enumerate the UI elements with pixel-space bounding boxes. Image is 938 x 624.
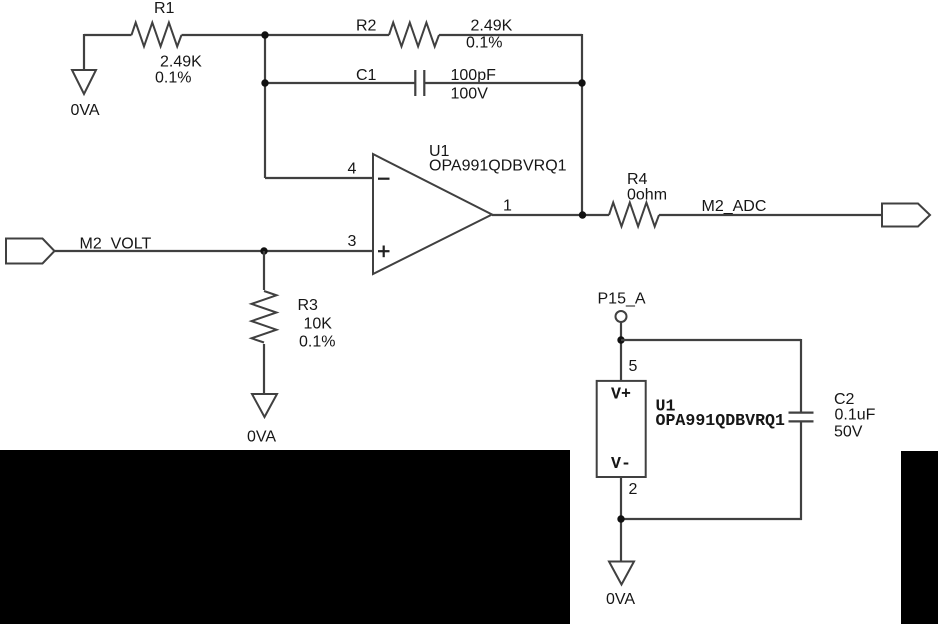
wire R1 to ground drop [83,34,85,70]
label R2 designator [356,18,377,35]
op-amp U1 [373,154,492,274]
power box U1 V+/V- [597,381,646,477]
wire M2_VOLT to pin3 [55,250,374,252]
label C1 voltage 100V [451,86,489,103]
svg-text:R2: R2 [356,18,377,35]
wire R2 to right corner [439,34,582,36]
svg-text:0VA: 0VA [606,591,635,608]
wire bottom branch [621,518,802,520]
pin number 1 [503,198,512,215]
svg-text:2.49K: 2.49K [471,18,513,35]
capacitor C2 [789,413,814,422]
wire C2 top lead [800,339,802,413]
label U1 designator (power box) [656,397,676,416]
ground 0VA (bottom) [606,562,635,609]
svg-text:2.49K: 2.49K [160,54,202,71]
label R1 designator [154,0,175,17]
wire top branch to C2 [621,339,801,341]
redaction block right [901,451,938,624]
svg-text:0ohm: 0ohm [627,187,667,204]
svg-text:1: 1 [503,198,512,215]
wire R1 to R2 [182,34,390,36]
wire P15_A to box pin5 [620,322,622,381]
label C1 designator [356,67,377,84]
svg-text:R3: R3 [298,297,319,314]
resistor R1 [132,23,182,47]
label C1 value 100pF [451,67,497,84]
svg-text:100V: 100V [451,86,489,103]
svg-text:0.1%: 0.1% [299,334,335,351]
net label M2_ADC [702,198,767,215]
svg-text:R4: R4 [627,171,648,188]
capacitor C1 [415,70,424,96]
wire C2 bottom lead [800,421,802,520]
svg-text:OPA991QDBVRQ1: OPA991QDBVRQ1 [656,411,785,430]
junction node R1/R2 [261,31,268,38]
wire op-amp pin4 lead [265,177,373,179]
resistor R4 [609,203,659,227]
redaction block left [0,450,570,624]
svg-text:P15_A: P15_A [598,291,646,308]
pin number 4 [348,161,357,178]
label R3 tolerance 0.1% [299,334,335,351]
net label P15_A [598,291,646,308]
svg-text:C2: C2 [834,391,855,408]
svg-text:R1: R1 [154,0,175,17]
label R4 value 0ohm [627,187,667,204]
svg-text:OPA991QDBVRQ1: OPA991QDBVRQ1 [429,158,567,175]
label U1 part OPA991QDBVRQ1 [429,158,567,175]
wire R4 to output port [659,214,882,216]
svg-text:0VA: 0VA [247,429,276,446]
label R2 tolerance 0.1% [466,35,502,52]
pin number 3 [348,233,357,250]
svg-text:50V: 50V [834,424,863,441]
label R3 value 10K [304,316,333,333]
label R1 value 2.49K [160,54,202,71]
svg-text:0.1%: 0.1% [466,35,502,52]
svg-text:100pF: 100pF [451,67,497,84]
ground 0VA (R3) [247,394,277,446]
wire box pin2 to ground [620,477,622,562]
resistor R3 [252,291,277,343]
svg-text:0.1uF: 0.1uF [835,407,876,424]
label U1 designator [429,143,450,160]
label R4 designator [627,171,648,188]
wire op-amp output [492,214,609,216]
junction P15 top [617,336,624,343]
ground 0VA (left) [71,70,100,119]
label C2 designator [834,391,855,408]
svg-text:4: 4 [348,161,357,178]
wire C1 left lead [265,82,415,84]
label C2 value 0.1uF [835,407,876,424]
wire C1 right lead [424,82,582,84]
pin number 2 [629,481,638,498]
label U1 part OPA991QDBVRQ1 (power box) [656,411,785,430]
wire right vertical feedback [581,34,583,215]
svg-text:M2_ADC: M2_ADC [702,198,767,215]
svg-text:0VA: 0VA [71,102,100,119]
wire inverting branch vertical [264,35,266,178]
label C2 voltage 50V [834,424,863,441]
port M2_ADC [882,204,930,227]
junction output node [579,211,586,218]
svg-text:10K: 10K [304,316,333,333]
svg-text:0.1%: 0.1% [155,70,191,87]
label R1 tolerance 0.1% [155,70,191,87]
terminal P15_A circle [616,311,627,322]
svg-text:2: 2 [629,481,638,498]
svg-text:3: 3 [348,233,357,250]
svg-text:V+: V+ [611,385,631,404]
junction bottom node [617,515,624,522]
junction R3 tap [260,247,267,254]
label R3 designator [298,297,319,314]
wire R3 top lead [263,251,265,290]
port M2_VOLT [6,239,55,264]
junction C1 left [261,79,268,86]
label R2 value 2.49K [471,18,513,35]
wire R1 left lead [84,34,132,36]
wire R3 bottom lead [263,344,265,394]
svg-text:V-: V- [611,454,631,473]
svg-text:C1: C1 [356,67,377,84]
resistor R2 [389,23,439,47]
junction C1 right [578,79,585,86]
svg-text:5: 5 [629,358,638,375]
net label M2_VOLT [80,236,152,253]
pin number 5 [629,358,638,375]
